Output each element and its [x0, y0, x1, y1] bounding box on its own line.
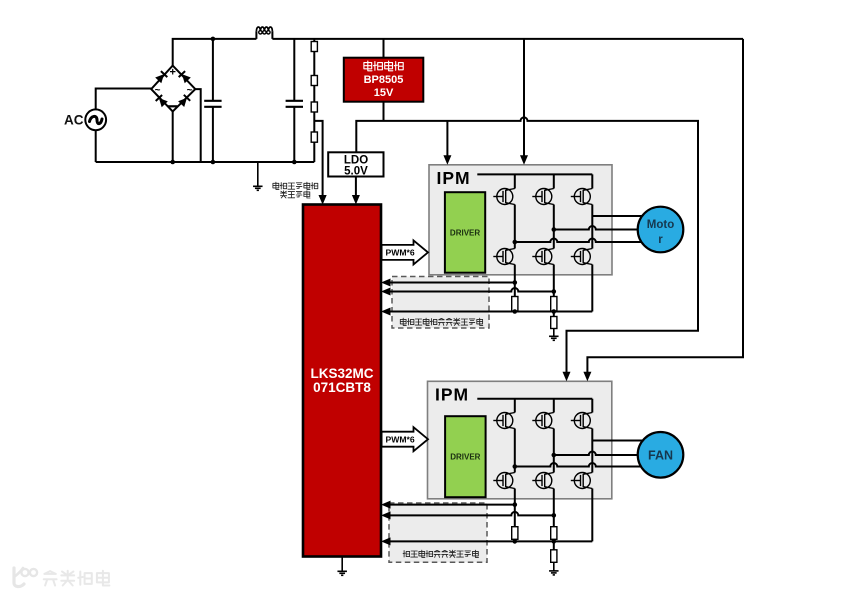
resistor to ground stage2	[553, 541, 555, 549]
AC source V1	[64, 109, 106, 130]
wire sense common line stage2	[390, 540, 592, 542]
svg-text:LDO: LDO	[344, 154, 368, 166]
svg-text:Moto: Moto	[647, 219, 674, 231]
transistor IPM2 low-side Q6	[571, 473, 593, 489]
wire bus drops IPM2	[515, 399, 593, 413]
motor M1	[638, 207, 684, 253]
wire DC bus right drop to second IPM	[587, 39, 743, 373]
gate driver IPM1	[445, 192, 485, 273]
wire bus drops IPM1	[515, 174, 593, 188]
svg-text:AC: AC	[64, 113, 84, 128]
svg-text:PWM*6: PWM*6	[386, 248, 415, 258]
wire 15V branch to first IPM driver	[446, 121, 448, 156]
arrow 15V into IPM1	[443, 155, 451, 165]
transistor IPM2 high-side Q3	[571, 413, 593, 429]
wire top DC bus rail right segment	[272, 38, 743, 40]
capacitor C1	[204, 39, 221, 162]
IPM module IPM2	[428, 381, 612, 499]
bridge rectifier BR1	[151, 66, 195, 112]
wire bottom negative rail	[96, 161, 315, 163]
wire bridge right lead	[195, 89, 200, 162]
wire sense line 2	[390, 288, 554, 291]
watermark logo	[14, 568, 109, 587]
gate driver IPM2	[445, 416, 486, 497]
junction dots sense 1	[513, 280, 557, 314]
junction dots phases	[513, 227, 557, 244]
label bus voltage sample signal	[273, 182, 318, 198]
shunt resistor Rs2	[551, 297, 557, 312]
wire top DC bus rail left segment	[173, 39, 257, 66]
junction dots sense 2	[513, 502, 557, 543]
wire aux supply output	[383, 102, 385, 121]
resistor divider R1 R2 R3 R4 bus voltage sense	[311, 39, 317, 162]
transistor IPM2 low-side Q5	[532, 473, 554, 489]
wire sense line 2 stage2	[390, 512, 554, 515]
wire sense line 1 stage2	[390, 504, 515, 506]
transistor IPM1 low-side Q6	[571, 249, 593, 265]
sense box fan phase current (dashed)	[389, 503, 487, 562]
wire 15V rail	[356, 117, 698, 372]
svg-text:071CBT8: 071CBT8	[313, 380, 371, 395]
wire IPM1 low side legs down	[515, 265, 593, 312]
inductor L1	[256, 27, 272, 39]
ground MCU	[337, 557, 347, 576]
ground stage2	[549, 562, 559, 575]
wire internal DC bus IPM1	[477, 173, 592, 175]
LDO regulator 5.0V	[328, 152, 383, 177]
fan motor M2	[638, 432, 684, 478]
wire AC bottom lead	[95, 130, 97, 162]
arrow DC bus sample into MCU	[319, 195, 327, 205]
svg-text:IPM: IPM	[437, 168, 471, 188]
transistor IPM1 high-side Q3	[571, 189, 593, 205]
wire LDO output to MCU	[355, 177, 357, 196]
wire phase U IPM2	[592, 440, 642, 442]
svg-text:~: ~	[187, 85, 193, 96]
wire sense line 1	[390, 282, 515, 284]
svg-text:5.0V: 5.0V	[344, 166, 368, 178]
arrow DC bus into IPM2	[583, 372, 591, 382]
wire phase V IPM2	[554, 452, 638, 456]
wire IPM2 low side legs down	[515, 489, 593, 542]
sense box motor phase current (dashed)	[392, 277, 489, 329]
svg-text:15V: 15V	[374, 87, 394, 99]
svg-text:IPM: IPM	[435, 385, 469, 405]
wire internal DC bus IPM2	[477, 398, 592, 400]
transistor IPM2 high-side Q2	[532, 413, 554, 429]
wire mid legs IPM2	[515, 429, 593, 473]
wire phase W IPM1	[515, 239, 641, 242]
junction dots main rails	[170, 37, 296, 165]
transistor IPM2 high-side Q1	[493, 413, 515, 429]
MCU U1 LKS32MC071CBT8	[303, 205, 381, 557]
auxiliary power module BP8505	[344, 58, 424, 102]
svg-text:r: r	[658, 234, 663, 246]
svg-text:DRIVER: DRIVER	[450, 453, 480, 462]
PWM*6 block arrow to IPM2	[382, 427, 428, 451]
shunt resistor Rs1	[512, 297, 518, 312]
shunt resistor Rs3	[512, 527, 518, 540]
transistor IPM1 low-side Q5	[532, 249, 554, 265]
transistor IPM1 high-side Q1	[493, 189, 515, 205]
arrow DC bus into IPM1	[520, 155, 528, 165]
wire phase U IPM1	[592, 215, 642, 217]
junction dots phases	[513, 453, 557, 469]
svg-text:DRIVER: DRIVER	[450, 228, 480, 237]
PWM*6 block arrow to IPM1	[382, 240, 428, 264]
wire aux supply input from bus	[383, 39, 385, 58]
transistor IPM1 low-side Q4	[493, 249, 515, 265]
wire phase W IPM2	[515, 463, 641, 466]
svg-text:PWM*6: PWM*6	[386, 434, 415, 444]
shunt resistor Rs4	[551, 527, 557, 540]
svg-text:+: +	[169, 67, 175, 79]
svg-text:FAN: FAN	[648, 448, 673, 462]
svg-text:BP8505: BP8505	[364, 74, 404, 86]
ground stage1	[549, 329, 559, 341]
arrow 15V into IPM2	[563, 372, 571, 382]
ground main bus	[253, 162, 262, 190]
wire AC top lead to bridge	[96, 89, 152, 110]
transistor IPM2 low-side Q4	[493, 473, 515, 489]
resistor to ground stage1	[553, 312, 555, 317]
wire sense common line	[390, 311, 592, 313]
svg-text:~: ~	[155, 85, 161, 96]
svg-text:LKS32MC: LKS32MC	[310, 366, 373, 381]
IPM module IPM1	[429, 165, 612, 275]
wire divider tap to MCU ADC	[314, 121, 322, 196]
transistor IPM1 high-side Q2	[532, 189, 554, 205]
wire phase V IPM1	[554, 226, 638, 229]
wire bridge bottom lead	[172, 112, 174, 163]
wire DC bus drop to first IPM	[523, 39, 525, 156]
capacitor C2	[286, 39, 303, 162]
wire mid legs IPM1	[515, 205, 593, 249]
